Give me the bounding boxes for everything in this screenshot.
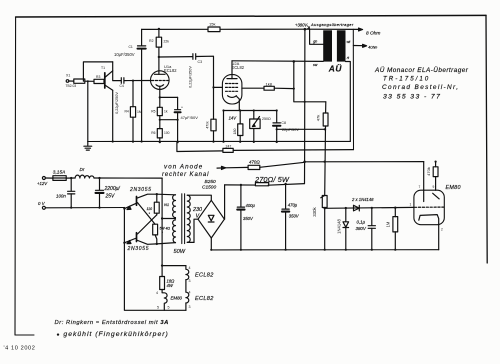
svg-text:2 x 1N4148: 2 x 1N4148	[351, 197, 374, 202]
svg-text:+12V: +12V	[37, 181, 48, 186]
svg-text:TB2.03: TB2.03	[66, 84, 77, 88]
svg-text:1M: 1M	[386, 221, 391, 227]
svg-text:3: 3	[189, 279, 191, 283]
svg-text:rechter Kanal: rechter Kanal	[162, 172, 209, 178]
svg-text:R5: R5	[151, 110, 155, 114]
svg-text:EM80: EM80	[171, 295, 183, 300]
svg-text:R4: R4	[124, 110, 128, 114]
svg-text:350V: 350V	[243, 216, 254, 221]
svg-text:+380V: +380V	[295, 22, 308, 27]
svg-text:Conrad Bestell-Nr,: Conrad Bestell-Nr,	[382, 84, 459, 91]
svg-text:5W 4Ω: 5W 4Ω	[160, 227, 171, 231]
svg-text:270Ω/ 5W: 270Ω/ 5W	[254, 175, 290, 184]
svg-text:14V: 14V	[229, 116, 238, 121]
svg-text:5: 5	[168, 306, 170, 310]
svg-text:ECL82: ECL82	[195, 296, 214, 302]
svg-text:C8: C8	[281, 121, 286, 125]
svg-text:C3: C3	[198, 60, 203, 64]
svg-text:400μ: 400μ	[246, 203, 256, 208]
svg-text:EM80: EM80	[446, 185, 461, 191]
svg-text:10μF/350V: 10μF/350V	[114, 52, 135, 57]
svg-text:22k: 22k	[164, 40, 170, 44]
svg-text:25V: 25V	[105, 194, 116, 200]
svg-text:ECL82: ECL82	[164, 68, 177, 73]
svg-text:22μF/50V: 22μF/50V	[282, 127, 299, 132]
svg-text:5: 5	[157, 306, 159, 310]
svg-text:von Anode: von Anode	[164, 163, 203, 170]
svg-text:2N3055: 2N3055	[127, 246, 150, 252]
svg-text:1M: 1M	[137, 110, 142, 114]
svg-text:330k: 330k	[312, 206, 317, 216]
svg-text:470k: 470k	[426, 167, 431, 176]
svg-text:sw: sw	[313, 63, 318, 67]
svg-text:AÜ Monacor ELA-Übertrager: AÜ Monacor ELA-Übertrager	[374, 66, 469, 74]
svg-text:wt: wt	[347, 40, 352, 44]
svg-text:T1: T1	[101, 66, 105, 70]
svg-text:B250: B250	[205, 179, 217, 185]
svg-text:0,1μ: 0,1μ	[357, 219, 366, 224]
svg-text:7: 7	[419, 185, 421, 189]
svg-text:C1: C1	[128, 45, 132, 49]
svg-text:1N4148: 1N4148	[336, 218, 341, 233]
svg-text:N1: N1	[164, 202, 169, 207]
svg-text:0 V: 0 V	[38, 201, 46, 206]
svg-text:4: 4	[189, 290, 191, 294]
svg-text:47k: 47k	[316, 115, 321, 121]
svg-text:C1500: C1500	[202, 185, 216, 191]
svg-text:R3: R3	[96, 75, 100, 79]
svg-text:47μF/50V: 47μF/50V	[181, 115, 199, 120]
svg-text:ECL82: ECL82	[232, 65, 245, 70]
svg-text:100n: 100n	[56, 193, 66, 198]
svg-text:247: 247	[226, 145, 232, 149]
svg-text:Dr: Dr	[80, 167, 85, 172]
svg-text:'4 10 2002: '4 10 2002	[4, 346, 36, 352]
svg-text:3,15A: 3,15A	[53, 170, 66, 176]
svg-text:33 55 33 - 77: 33 55 33 - 77	[383, 93, 441, 100]
svg-text:380V: 380V	[356, 226, 367, 231]
svg-text:230: 230	[192, 207, 202, 213]
svg-text:3: 3	[189, 305, 191, 309]
svg-text:*: *	[149, 212, 151, 216]
svg-text:250Ω: 250Ω	[262, 117, 271, 121]
svg-text:0,22μF/250V: 0,22μF/250V	[115, 92, 119, 114]
svg-text:AÜ: AÜ	[328, 64, 343, 74]
svg-text:470Ω: 470Ω	[249, 160, 260, 165]
svg-text:100: 100	[164, 131, 170, 135]
svg-text:50W: 50W	[174, 249, 186, 255]
svg-text:2200μ/: 2200μ/	[104, 186, 121, 192]
svg-text:● gekühlt (Fingerkühlkörper): ● gekühlt (Fingerkühlkörper)	[57, 331, 169, 338]
svg-text:4Ohm: 4Ohm	[368, 46, 377, 50]
svg-text:ECL82: ECL82	[195, 272, 214, 278]
svg-text:2: 2	[441, 227, 443, 231]
svg-text:350V: 350V	[289, 214, 300, 219]
svg-text:4W: 4W	[167, 283, 174, 288]
svg-text:1k: 1k	[164, 110, 168, 114]
svg-text:470μ: 470μ	[288, 202, 298, 207]
svg-text:Dr: Ringkern = Entstördrossel: Dr: Ringkern = Entstördrossel mit 3A	[55, 320, 169, 326]
svg-text:4: 4	[156, 291, 158, 295]
svg-text:4: 4	[189, 266, 191, 270]
svg-text:gn: gn	[313, 40, 317, 44]
svg-text:8 Ohm: 8 Ohm	[366, 31, 380, 37]
svg-text:Ausgangsübertrager: Ausgangsübertrager	[310, 22, 354, 27]
svg-text:rt: rt	[347, 56, 350, 60]
svg-text:2N3055: 2N3055	[129, 187, 152, 193]
svg-text:*: *	[162, 231, 164, 235]
svg-text:TR-175/10: TR-175/10	[383, 75, 430, 82]
svg-text:9: 9	[433, 185, 435, 189]
svg-text:+: +	[181, 106, 183, 110]
svg-text:C4: C4	[120, 84, 124, 88]
svg-text:15k: 15k	[209, 21, 215, 26]
svg-text:180: 180	[233, 129, 237, 135]
svg-text:110: 110	[147, 207, 153, 211]
svg-text:1: 1	[410, 203, 412, 207]
svg-text:R6: R6	[151, 131, 155, 135]
svg-text:X1: X1	[66, 74, 70, 78]
svg-text:R2: R2	[149, 39, 153, 43]
svg-text:1k8: 1k8	[266, 81, 273, 86]
svg-text:470k: 470k	[206, 121, 210, 129]
svg-text:0,22μF/350V: 0,22μF/350V	[189, 66, 193, 88]
